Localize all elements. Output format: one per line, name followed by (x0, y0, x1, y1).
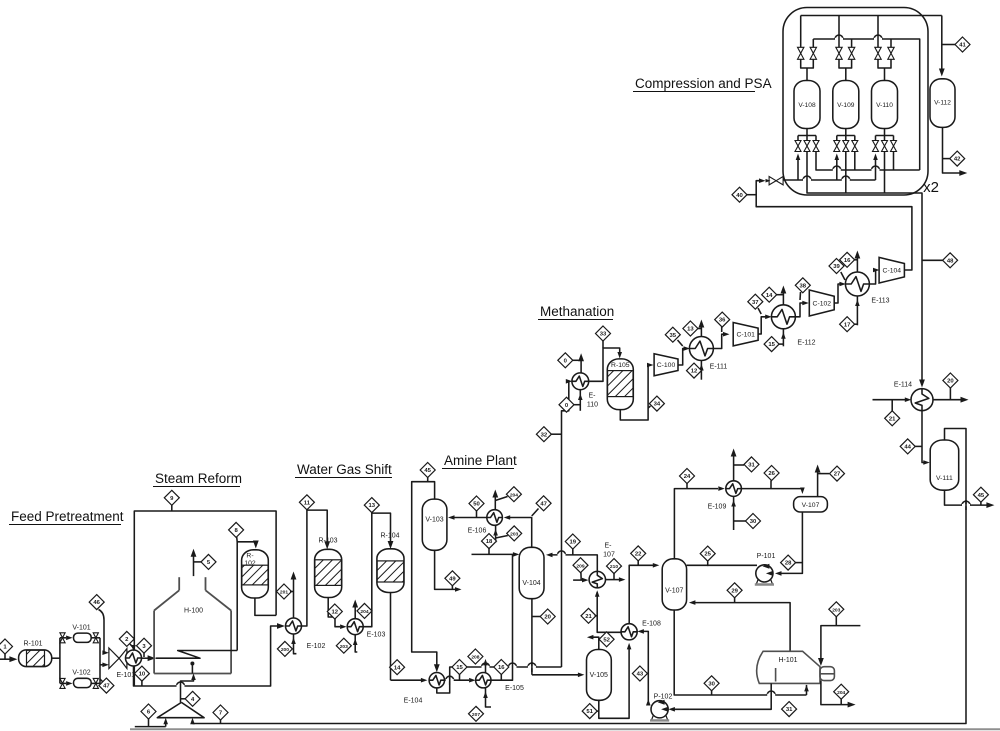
wire C-101 to E-112 (758, 315, 772, 335)
svg-text:E-102: E-102 (307, 643, 326, 650)
reactor R-101 (19, 641, 52, 667)
wire C-100 to E-111 (678, 346, 690, 365)
stream diamond 12 cw (687, 363, 702, 378)
stream diamond 25 (700, 546, 715, 566)
stream diamond 15 (452, 660, 467, 681)
stream diamond 30 bottoms (704, 676, 719, 695)
stream diamond 31 lean (782, 702, 797, 717)
wire PSA purge down to E-114 (919, 206, 925, 388)
stream diamond 18 (482, 534, 497, 555)
svg-text:45: 45 (978, 493, 985, 499)
svg-text:41: 41 (959, 43, 966, 49)
wire E-103 outlet riser to R-104 (363, 513, 393, 627)
svg-text:210: 210 (610, 564, 618, 570)
page edge line (130, 728, 1000, 730)
svg-text:E-112: E-112 (797, 340, 815, 347)
wire PSA offgas header C (807, 152, 922, 207)
wire E-104 to E-105 (445, 675, 476, 685)
svg-text:E-114: E-114 (894, 382, 912, 389)
wire steam into H-101 (818, 626, 860, 666)
stream diamond 22 (631, 546, 646, 565)
vessel V-104 (519, 547, 544, 598)
svg-text:E-109: E-109 (708, 504, 727, 511)
wire E-102 outlet riser to R-103 (302, 510, 331, 626)
wire E-106 to V-103 (448, 511, 487, 520)
svg-text:15: 15 (768, 342, 775, 348)
wire E-111 to C-101 (713, 332, 729, 349)
stream diamond 6 (141, 704, 156, 727)
svg-text:110: 110 (587, 402, 598, 409)
svg-text:14: 14 (394, 665, 401, 671)
section label Methanation (538, 304, 614, 320)
svg-text:E-: E- (605, 543, 613, 550)
svg-text:x2: x2 (923, 179, 939, 196)
wire E-114 inlet left (873, 397, 912, 411)
wire E-105 vent top (483, 659, 488, 673)
wire V-108 bottom manifold (798, 129, 816, 141)
reboiler H-101 (757, 651, 835, 683)
svg-text:V-103: V-103 (425, 517, 443, 524)
svg-text:49: 49 (449, 576, 456, 582)
wire V-108 inlet valves (801, 16, 814, 81)
valve V-108 bottom-left (795, 141, 801, 152)
PSA feed valve (766, 177, 784, 185)
PSA boundary rounded box (783, 8, 928, 196)
wire R-104 bottom to E-104 (391, 593, 428, 683)
stream diamond 33 (596, 326, 611, 341)
svg-text:43: 43 (637, 672, 644, 678)
stream diamond 16 (494, 660, 509, 681)
wire V-102 outlet (91, 682, 100, 684)
stream diamond 50 (469, 496, 484, 511)
reactor R-102 (242, 550, 269, 598)
wire E-103 steam out top (352, 600, 358, 619)
heat exchanger E-104 (404, 673, 445, 705)
valve V-108 top-right (810, 47, 816, 59)
stream diamond 8 (229, 522, 244, 541)
svg-text:203: 203 (510, 532, 518, 538)
wire E-110 bfw in bottom (578, 390, 583, 411)
stream diamond 3 (137, 638, 152, 657)
stream diamond 214 (559, 397, 580, 412)
heat exchanger E-114 (894, 382, 933, 411)
valve V-101 inlet (60, 633, 65, 643)
wire E-110 to R-105 (589, 341, 622, 381)
svg-text:20: 20 (544, 615, 551, 621)
vessel V-112 (930, 79, 955, 128)
furnace H-100 (154, 577, 231, 673)
svg-text:21: 21 (889, 416, 896, 422)
heat exchanger E-111 (689, 337, 727, 371)
svg-text:P-101: P-101 (757, 553, 776, 560)
vessel V-109 (833, 81, 859, 129)
svg-text:107: 107 (603, 552, 615, 559)
stream diamond 203 H-101 (829, 602, 844, 626)
vessel V-102 (72, 670, 91, 688)
svg-text:Compression and PSA: Compression and PSA (635, 76, 772, 91)
wire V-105 bottoms to E-108 (599, 643, 632, 718)
svg-text:13: 13 (687, 327, 694, 333)
column V-107 (662, 559, 686, 610)
wire E-114 outlet right (933, 388, 969, 403)
svg-text:C-104: C-104 (883, 268, 902, 275)
svg-text:H-101: H-101 (778, 657, 797, 664)
stream diamond 20 (532, 609, 555, 624)
section label Steam Reform (153, 471, 242, 487)
svg-text:H-100: H-100 (184, 608, 203, 615)
valve V-108 bottom-right (813, 141, 819, 152)
stream diamond 35 (665, 327, 682, 346)
wire V-110 bottom manifold (876, 129, 894, 141)
valve V-110 bottom-mid (882, 141, 888, 152)
svg-text:P-102: P-102 (654, 694, 673, 701)
stream diamond 34 (648, 396, 664, 411)
svg-text:16: 16 (844, 258, 851, 264)
wire E-102 bfw in bottom (291, 634, 296, 654)
svg-text:V-108: V-108 (798, 102, 816, 109)
svg-text:35: 35 (670, 333, 677, 339)
svg-text:16: 16 (498, 665, 505, 671)
wire E-107 to V-104 (546, 551, 597, 571)
stream diamond 15 cw (764, 337, 783, 352)
svg-text:E-103: E-103 (367, 632, 386, 639)
stream diamond 13 cw (683, 321, 702, 336)
svg-text:V-112: V-112 (934, 100, 951, 107)
svg-text:31: 31 (748, 463, 755, 469)
wire C-102 to E-113 (834, 282, 846, 303)
compressor C-104 (879, 257, 904, 283)
svg-text:E-108: E-108 (642, 621, 661, 628)
PSA second header wire (813, 35, 919, 170)
svg-text:52: 52 (603, 637, 610, 643)
svg-text:17: 17 (844, 322, 851, 328)
wire V-101/V-102 split header (59, 638, 61, 684)
svg-text:E-: E- (589, 393, 597, 400)
svg-text:E-106: E-106 (468, 528, 487, 535)
wire E-105 outlet riser to V-104 (491, 554, 513, 680)
reflux drum V-107 (794, 497, 828, 512)
svg-text:18: 18 (486, 539, 493, 545)
svg-text:33: 33 (600, 332, 607, 338)
stream diamond 47 amine (532, 496, 551, 516)
stream diamond 27 (830, 466, 845, 481)
stream diamond 26 (764, 466, 779, 481)
heat exchanger E-113 (845, 272, 889, 305)
svg-text:102: 102 (244, 560, 256, 567)
vessel V-108 (794, 81, 820, 129)
section label Feed Pretreatment (9, 509, 124, 525)
stream diamond 30 E-109 bottom (746, 514, 761, 529)
valve V-110 top-right (888, 47, 894, 59)
stream diamond 7 (213, 705, 228, 724)
svg-text:30: 30 (708, 681, 715, 687)
stream diamond 16 cw (840, 252, 858, 267)
wire V-103 overhead to E-104 (412, 482, 440, 673)
wire E-101 outlet to furnace coil (142, 655, 156, 661)
stream diamond 21 E-114 (885, 411, 900, 426)
svg-text:42: 42 (954, 157, 961, 163)
wire E-111 cooling out top (699, 320, 705, 337)
svg-text:27: 27 (834, 472, 841, 478)
svg-text:201: 201 (280, 590, 288, 596)
steam reform boundary box (134, 511, 276, 686)
valve V-110 bottom-left (873, 141, 879, 152)
wire drum to P-101 (775, 512, 802, 576)
wire E-101 bottom to E-102 line (134, 623, 286, 686)
valve V-109 bottom-mid (843, 141, 849, 152)
wire E-112 cooling in bottom (781, 329, 786, 346)
stream diamond 47 (99, 678, 114, 693)
svg-text:V-101: V-101 (72, 625, 90, 632)
svg-text:45: 45 (424, 468, 431, 474)
svg-text:47: 47 (103, 684, 110, 690)
compressor C-102 (809, 290, 834, 316)
stream diamond 2 (119, 631, 134, 648)
wire fuel feed left into triangle (135, 718, 168, 727)
wire E-112 cooling out top (781, 286, 787, 305)
svg-text:Steam Reform: Steam Reform (155, 471, 242, 486)
vessel V-101 (72, 625, 91, 643)
stream diamond 12 (327, 604, 342, 619)
stream diamond 204 (357, 603, 372, 618)
wire H-101 vapor return to column (689, 600, 790, 651)
svg-text:203: 203 (340, 644, 348, 650)
vessel V-105 (587, 650, 612, 701)
wire R-101 outlet (52, 657, 60, 659)
svg-text:11: 11 (304, 500, 311, 506)
svg-text:48: 48 (947, 258, 954, 264)
wire E-107 water in left (573, 578, 588, 583)
wire V-103 bottoms out (435, 550, 462, 591)
label x2 (923, 179, 939, 196)
svg-text:R-: R- (246, 553, 253, 560)
stream diamond 5 (201, 554, 216, 569)
heat exchanger E-110 (572, 373, 598, 409)
svg-text:V-104: V-104 (522, 580, 540, 587)
vessel V-110 (872, 81, 898, 129)
wire P-101 reflux to column (687, 564, 757, 566)
svg-text:36: 36 (719, 318, 726, 324)
stream diamond 49 (445, 571, 460, 590)
wire E-111 cooling in bottom (699, 361, 704, 380)
wire E-109 cooling in bottom (731, 496, 745, 530)
wire feed stream 1 into R-101 (0, 656, 17, 662)
wire V-111 top to fuel recycle (193, 429, 967, 724)
heat exchanger E-103 (347, 619, 385, 639)
svg-text:E-101: E-101 (117, 672, 136, 679)
svg-text:47: 47 (540, 501, 547, 507)
valve V-109 bottom-left (834, 141, 840, 152)
stream diamond 28 (781, 555, 803, 570)
stream diamond 45 (420, 463, 435, 482)
stream diamond 36 (715, 312, 730, 332)
wire E-113 cooling out top (855, 251, 861, 273)
stream diamond 32 (536, 427, 561, 442)
svg-text:208: 208 (471, 655, 479, 661)
burner fuel line into H-100 (181, 662, 196, 703)
wire PSA feed header B (784, 154, 878, 181)
svg-text:22: 22 (635, 552, 642, 558)
stream diamond 41 (942, 37, 970, 52)
stream diamond 14 (390, 660, 405, 675)
valve V-110 top-left (875, 47, 881, 59)
wire E-114 to V-111 (922, 411, 930, 465)
svg-text:14: 14 (766, 293, 773, 299)
stream diamond 201 (277, 584, 294, 599)
wire E-113 cooling in bottom (855, 296, 860, 325)
valve V-109 top-left (836, 47, 842, 59)
svg-text:R-104: R-104 (380, 533, 399, 540)
svg-text:38: 38 (800, 283, 807, 289)
svg-text:200: 200 (281, 647, 289, 653)
svg-text:39: 39 (833, 264, 840, 270)
svg-text:V-105: V-105 (590, 672, 608, 679)
valve V-102 outlet (93, 678, 98, 688)
PSA top header wire (801, 15, 942, 17)
stream diamond 208 (468, 649, 483, 664)
section label Amine Plant (442, 453, 517, 469)
stream diamond 52 (599, 632, 614, 647)
wire R-103 bottom to E-103 (328, 598, 346, 630)
stream diamond 31 E-109 top (744, 457, 759, 472)
section label Compression and PSA (633, 76, 772, 92)
svg-text:203: 203 (832, 607, 840, 613)
wire V-101/V-102 merge header (100, 638, 109, 684)
svg-text:204: 204 (510, 492, 518, 498)
wire drum vent (815, 465, 829, 497)
svg-text:E-111: E-111 (710, 364, 728, 371)
valve V-108 top-left (798, 47, 804, 59)
wire V-109 bottom manifold (837, 129, 855, 141)
wire to V-102 (60, 681, 73, 686)
stream diamond 210 (607, 559, 622, 580)
wire V-112 feed (939, 16, 945, 77)
stream diamond 19 (565, 534, 580, 555)
stream diamond 209 (573, 558, 588, 580)
svg-text:10: 10 (139, 672, 146, 678)
svg-text:Amine Plant: Amine Plant (444, 453, 517, 468)
svg-text:V-109: V-109 (837, 102, 855, 109)
wire E-112 to C-102 (795, 301, 808, 317)
stream diamond 24 (680, 469, 695, 489)
svg-text:19: 19 (570, 540, 577, 546)
reactor R-103 (315, 538, 342, 598)
valve V-109 bottom-right (852, 141, 858, 152)
wire V-104 bottoms to V-105 (532, 599, 585, 677)
svg-text:C-100: C-100 (657, 362, 676, 369)
wire C-104 discharge to PSA (756, 178, 912, 270)
heat exchanger E-108 (621, 621, 661, 640)
wire V-101 outlet (91, 637, 100, 639)
stream diamond 40 (732, 187, 756, 202)
svg-text:34: 34 (654, 402, 661, 408)
heat exchanger E-101 (117, 650, 142, 679)
svg-text:R-105: R-105 (611, 362, 630, 369)
wire PSA purge header A (816, 152, 920, 171)
svg-text:46: 46 (93, 600, 100, 606)
valve V-108 bottom-mid (804, 141, 810, 152)
wire P-102 to E-108 (637, 629, 650, 705)
valve V-101 outlet (93, 633, 98, 643)
svg-text:C-101: C-101 (736, 332, 755, 339)
compressor C-100 (654, 354, 678, 376)
stream diamond 44 (900, 439, 922, 454)
wire E-110 steam out top (578, 353, 584, 373)
wire E-105 bfw bottom (483, 688, 491, 707)
stream diamond 20 E-114 (943, 373, 958, 388)
svg-text:40: 40 (736, 193, 743, 199)
stream diamond 213 (558, 353, 581, 368)
wire E-106 cooling in bottom (493, 525, 498, 542)
wire H-100 stack vent (191, 549, 203, 576)
wire E-102 steam out top (291, 572, 297, 619)
stream diamond 11 (299, 495, 314, 510)
svg-text:32: 32 (541, 432, 548, 438)
svg-text:30: 30 (750, 519, 757, 525)
wire H-101 condensate out (821, 681, 856, 708)
stream diamond 21 (581, 608, 597, 623)
wire R-105 bottom to C-100 (620, 363, 653, 420)
wire E-103 bfw in bottom (353, 635, 358, 652)
stream diamond 200 (277, 641, 292, 656)
wire arrow into E-101 top (131, 645, 136, 652)
wire V-107 overhead to E-109 (674, 486, 724, 559)
svg-text:Methanation: Methanation (540, 304, 614, 319)
svg-text:E-104: E-104 (404, 698, 423, 705)
stream diamond 204 E-106 (495, 487, 521, 502)
stream diamond 38 (795, 278, 810, 300)
pump P-101 (755, 553, 776, 585)
svg-text:V-107: V-107 (665, 588, 683, 595)
stream diamond 46 (89, 595, 109, 655)
stream diamond 42 (943, 151, 965, 166)
wire V-104 overhead to E-106 (504, 515, 532, 548)
wire recycle fuel into triangle (190, 718, 195, 725)
wire E-106 cooling out top (492, 490, 498, 510)
heat exchanger E-102 (286, 618, 326, 650)
wire E-108 to E-107 riser (595, 590, 621, 632)
wire E-108 top to V-107 feed (629, 563, 659, 624)
svg-text:Feed Pretreatment: Feed Pretreatment (11, 509, 124, 524)
stream diamond 29 (727, 583, 742, 603)
stream diamond 207 (469, 706, 484, 721)
wire V-110 inlet valves (878, 16, 891, 81)
heat exchanger E-106 (468, 510, 503, 535)
heat exchanger E-112 (771, 305, 815, 347)
svg-text:R-101: R-101 (23, 641, 42, 648)
svg-text:51: 51 (586, 709, 593, 715)
compressor C-101 (733, 323, 758, 346)
svg-text:E-113: E-113 (871, 298, 889, 305)
wire methanation riser (562, 379, 573, 667)
wire V-111 bottoms product (945, 490, 995, 510)
stream diamond 1 (0, 639, 13, 659)
svg-text:E-105: E-105 (505, 685, 524, 692)
svg-text:12: 12 (691, 369, 698, 375)
valve V-109 top-right (848, 47, 854, 59)
svg-text:V-102: V-102 (72, 670, 90, 677)
wire V-105 vent (587, 635, 599, 650)
vessel V-103 (422, 499, 447, 550)
wire V-109 inlet valves (839, 16, 852, 81)
reactor R-105 (607, 359, 633, 410)
vessel V-111 (930, 440, 959, 490)
svg-text:C-102: C-102 (813, 300, 832, 307)
stream diamond 203 E-106 (496, 526, 522, 541)
svg-text:V-111: V-111 (936, 475, 953, 482)
stream diamond 10 (134, 666, 149, 686)
svg-text:26: 26 (768, 471, 775, 477)
